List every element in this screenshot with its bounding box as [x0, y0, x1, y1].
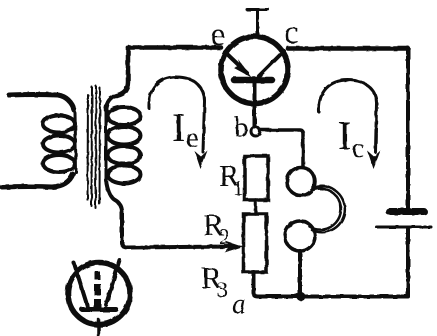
transformer primary top lead — [9, 95, 74, 111]
wire secondary top to corner — [106, 47, 128, 110]
wire R3 bottom to bottom rail — [254, 272, 409, 297]
svg-text:1: 1 — [233, 176, 244, 200]
svg-text:c: c — [284, 15, 299, 51]
transistor T circle — [221, 37, 288, 104]
svg-text:e: e — [211, 17, 226, 53]
label T mark — [247, 10, 268, 36]
microphone stub lead — [97, 320, 101, 335]
junction dot node a rail — [297, 292, 306, 301]
headphones headband — [312, 186, 345, 232]
battery wire bottom — [406, 229, 410, 296]
resistor R2/R3 body — [244, 214, 267, 272]
wire top horizontal to transistor emitter — [128, 45, 221, 50]
microphone right diagonal — [106, 260, 120, 305]
battery wire top — [406, 48, 410, 208]
svg-text:e: e — [186, 122, 199, 154]
headphones earpiece top — [287, 168, 315, 196]
microphone left diagonal — [74, 263, 88, 308]
arrowhead into R2/R3 junction — [225, 241, 244, 253]
battery plate short thick — [389, 208, 424, 215]
transformer primary bottom lead — [2, 174, 73, 187]
battery plate long thin — [377, 226, 432, 229]
transistor base bar — [234, 77, 272, 84]
headphones earpiece bottom — [285, 221, 315, 251]
transistor collector diagonal — [259, 51, 284, 76]
microphone symbol circle — [68, 263, 130, 325]
svg-text:3: 3 — [217, 277, 228, 302]
resistor R1 body — [245, 156, 269, 200]
wire R1 to R2 — [254, 200, 258, 214]
wire collector to top-right corner — [288, 46, 408, 51]
transformer secondary winding L2 — [106, 107, 141, 184]
wire node b to headphones — [260, 130, 303, 167]
svg-text:2: 2 — [219, 224, 230, 249]
microphone bottom bar — [82, 307, 116, 312]
transformer core — [88, 86, 101, 208]
transformer primary winding L1 — [43, 113, 76, 172]
svg-text:b: b — [234, 112, 249, 144]
Ic current loop arrow — [319, 80, 377, 152]
svg-text:I: I — [338, 113, 351, 158]
svg-text:I: I — [172, 105, 185, 150]
wire headphones to bottom rail — [298, 251, 302, 294]
Ie current loop arrow — [149, 77, 205, 152]
transistor base lead down to node b — [253, 82, 257, 127]
transistor emitter diagonal with arrow — [225, 52, 247, 73]
wire secondary bottom down — [106, 180, 232, 248]
node b circle — [251, 127, 260, 136]
microphone carbon column — [95, 272, 100, 281]
svg-text:c: c — [352, 133, 364, 163]
svg-text:a: a — [232, 289, 246, 320]
